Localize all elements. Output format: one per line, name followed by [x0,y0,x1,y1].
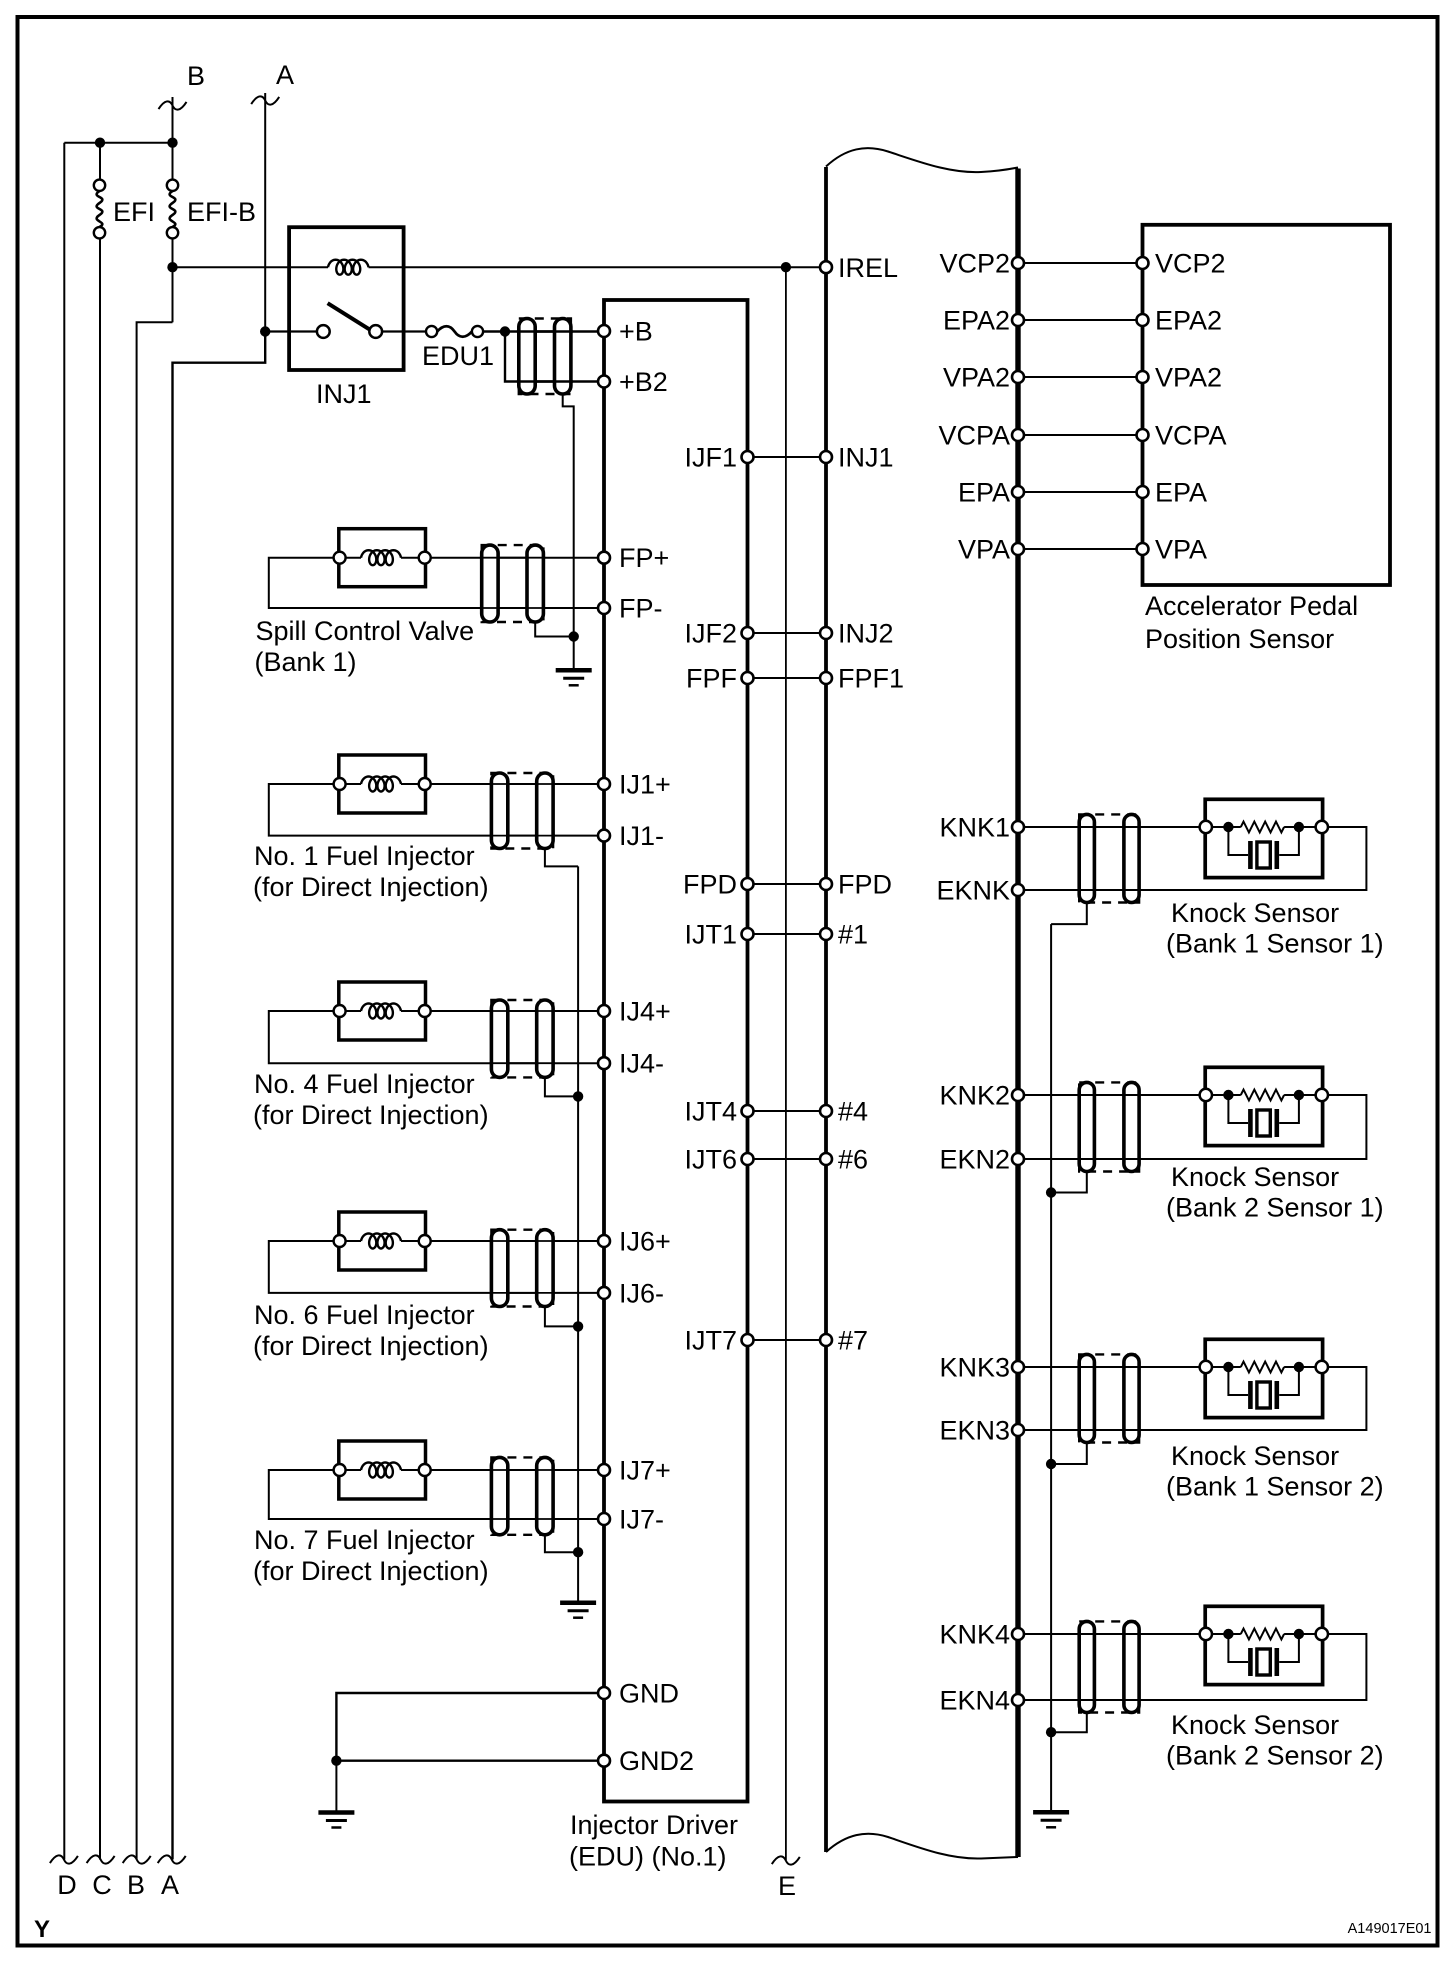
svg-text:Knock Sensor: Knock Sensor [1171,1710,1339,1740]
svg-text:No. 4 Fuel Injector: No. 4 Fuel Injector [254,1069,475,1099]
svg-text:VCPA: VCPA [1155,421,1227,451]
svg-text:(for Direct Injection): (for Direct Injection) [253,1556,489,1586]
svg-text:FP+: FP+ [619,543,669,573]
svg-text:A: A [276,60,294,90]
svg-text:EFI: EFI [113,197,155,227]
svg-text:IJ4+: IJ4+ [619,997,671,1027]
svg-text:Y: Y [34,1916,50,1943]
svg-text:EPA: EPA [1155,478,1207,508]
svg-text:(Bank 2 Sensor 2): (Bank 2 Sensor 2) [1166,1741,1384,1771]
svg-text:VCP2: VCP2 [1155,249,1226,279]
svg-text:GND2: GND2 [619,1746,694,1776]
svg-text:VPA: VPA [1155,535,1207,565]
svg-text:INJ1: INJ1 [838,443,894,473]
svg-text:FP-: FP- [619,594,663,624]
svg-text:IJ1+: IJ1+ [619,770,671,800]
svg-text:EPA: EPA [958,478,1010,508]
svg-text:IJ7+: IJ7+ [619,1456,671,1486]
svg-text:IJT7: IJT7 [684,1326,737,1356]
svg-text:FPF1: FPF1 [838,664,904,694]
svg-text:INJ1: INJ1 [316,379,372,409]
svg-text:#7: #7 [838,1326,868,1356]
svg-text:B: B [187,61,205,91]
svg-text:(Bank 2 Sensor 1): (Bank 2 Sensor 1) [1166,1193,1384,1223]
svg-text:EFI-B: EFI-B [187,197,256,227]
svg-text:A149017E01: A149017E01 [1348,1921,1432,1937]
svg-text:Knock Sensor: Knock Sensor [1171,1162,1339,1192]
svg-text:EKN2: EKN2 [939,1145,1010,1175]
svg-text:C: C [92,1870,112,1900]
svg-text:IREL: IREL [838,253,898,283]
svg-text:IJF1: IJF1 [684,443,737,473]
svg-text:KNK2: KNK2 [939,1081,1010,1111]
svg-text:#6: #6 [838,1145,868,1175]
svg-text:#4: #4 [838,1097,868,1127]
svg-text:EKNK: EKNK [936,876,1010,906]
svg-text:(for Direct Injection): (for Direct Injection) [253,1331,489,1361]
svg-text:VCPA: VCPA [938,421,1010,451]
svg-text:FPF: FPF [686,664,737,694]
svg-text:(Bank 1 Sensor 1): (Bank 1 Sensor 1) [1166,929,1384,959]
svg-text:E: E [778,1871,796,1901]
svg-text:EDU1: EDU1 [422,341,494,371]
svg-text:EKN4: EKN4 [939,1686,1010,1716]
svg-text:VPA: VPA [958,535,1010,565]
svg-text:IJ6-: IJ6- [619,1278,664,1308]
svg-text:D: D [57,1870,77,1900]
svg-text:IJ6+: IJ6+ [619,1227,671,1257]
svg-text:IJ7-: IJ7- [619,1505,664,1535]
svg-text:A: A [161,1870,179,1900]
svg-text:Accelerator Pedal: Accelerator Pedal [1145,591,1358,621]
svg-text:(Bank 1 Sensor 2): (Bank 1 Sensor 2) [1166,1472,1384,1502]
svg-text:KNK1: KNK1 [939,813,1010,843]
svg-text:FPD: FPD [683,870,737,900]
svg-text:(EDU) (No.1): (EDU) (No.1) [569,1842,727,1872]
svg-text:KNK4: KNK4 [939,1620,1010,1650]
svg-text:VPA2: VPA2 [943,363,1010,393]
svg-text:VPA2: VPA2 [1155,363,1222,393]
svg-text:Position Sensor: Position Sensor [1145,624,1334,654]
svg-text:+B2: +B2 [619,367,668,397]
svg-text:Spill Control Valve: Spill Control Valve [256,616,475,646]
svg-text:IJT1: IJT1 [684,920,737,950]
svg-text:+B: +B [619,317,653,347]
svg-text:Knock Sensor: Knock Sensor [1171,1441,1339,1471]
svg-text:EKN3: EKN3 [939,1416,1010,1446]
svg-text:No. 1 Fuel Injector: No. 1 Fuel Injector [254,841,475,871]
svg-text:GND: GND [619,1679,679,1709]
svg-text:IJF2: IJF2 [684,619,737,649]
svg-text:Knock Sensor: Knock Sensor [1171,898,1339,928]
svg-text:IJT6: IJT6 [684,1145,737,1175]
svg-text:IJ1-: IJ1- [619,821,664,851]
svg-text:VCP2: VCP2 [939,249,1010,279]
svg-text:(for Direct Injection): (for Direct Injection) [253,1100,489,1130]
svg-text:No. 6 Fuel Injector: No. 6 Fuel Injector [254,1300,475,1330]
svg-text:EPA2: EPA2 [943,306,1010,336]
svg-text:(for Direct Injection): (for Direct Injection) [253,872,489,902]
svg-text:KNK3: KNK3 [939,1353,1010,1383]
svg-text:INJ2: INJ2 [838,619,894,649]
svg-text:Injector Driver: Injector Driver [570,1810,738,1840]
svg-text:IJ4-: IJ4- [619,1049,664,1079]
svg-text:(Bank 1): (Bank 1) [255,647,357,677]
svg-text:B: B [127,1870,145,1900]
svg-text:#1: #1 [838,920,868,950]
svg-text:IJT4: IJT4 [684,1097,737,1127]
svg-text:FPD: FPD [838,870,892,900]
svg-text:EPA2: EPA2 [1155,306,1222,336]
svg-text:No. 7 Fuel Injector: No. 7 Fuel Injector [254,1525,475,1555]
